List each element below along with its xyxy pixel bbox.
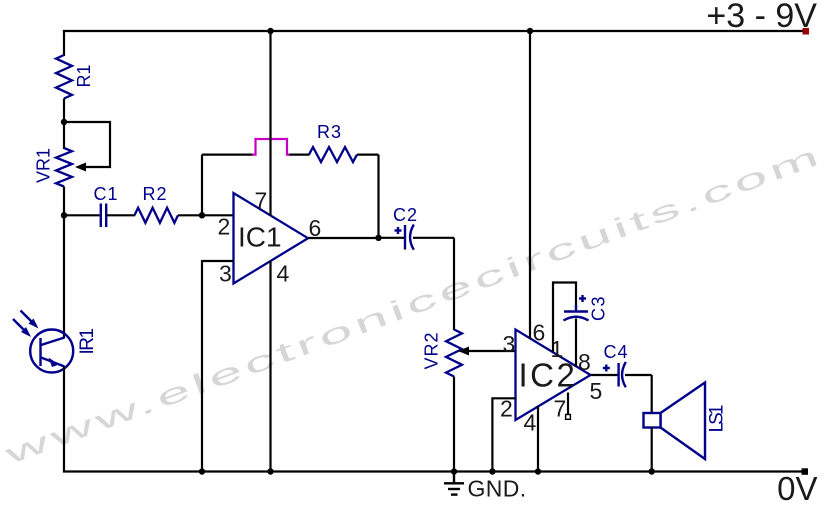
potentiometer VR2 [446, 330, 462, 377]
junction pin4 wire / bottom rail [535, 468, 541, 474]
svg-text:2: 2 [218, 214, 231, 240]
resistor R3 [309, 147, 357, 162]
capacitor C2 (polarized) [395, 225, 414, 250]
capacitor C4 (polarized) [603, 362, 626, 387]
svg-text:VR1: VR1 [34, 148, 54, 183]
junction pin3 wire / bottom rail [199, 468, 205, 474]
wire C1 to R2 [106, 214, 135, 216]
svg-text:C2: C2 [393, 205, 418, 225]
wire feedback down to output node [377, 155, 379, 238]
audio amplifier IC2 [516, 330, 591, 421]
wire feedback up [201, 155, 203, 216]
wire IC2 pin7 stub [567, 393, 569, 415]
wire IR1 emitter to bottom rail [63, 367, 65, 472]
wire C4 to corner [625, 374, 652, 376]
svg-text:8: 8 [578, 349, 591, 375]
junction pin2 wire / bottom rail [489, 468, 495, 474]
wire IC1 pin7 supply from top rail [269, 31, 271, 216]
svg-text:1: 1 [551, 336, 564, 362]
svg-text:IC1: IC1 [238, 222, 282, 253]
capacitor C3 (polarized) [564, 295, 589, 321]
svg-text:LS1: LS1 [707, 405, 728, 432]
svg-text:R2: R2 [143, 184, 168, 204]
junction output node / C2 [375, 235, 381, 241]
resistor R2 [135, 208, 179, 223]
wire IC1 output pin6 [308, 237, 379, 239]
svg-text:7: 7 [554, 396, 567, 422]
svg-text:2: 2 [500, 396, 513, 422]
wire VR1 wiper loop [64, 122, 110, 167]
svg-text:6: 6 [309, 215, 322, 241]
loudspeaker LS1 [644, 383, 706, 460]
junction VR2 / bottom rail [451, 468, 457, 474]
svg-text:5: 5 [590, 378, 603, 404]
svg-text:C3: C3 [589, 295, 609, 321]
svg-text:4: 4 [524, 410, 537, 436]
wire R1 to VR1 [63, 99, 65, 150]
wire R2 to IC1 pin2 [178, 214, 234, 216]
wire C3 to IC2 pin8 [575, 319, 577, 367]
svg-text:0V: 0V [777, 470, 817, 506]
wire bottom 0V rail [63, 470, 806, 472]
wire IC2 pin6 supply from top rail [529, 31, 531, 339]
black terminal square 0V [802, 468, 809, 475]
svg-text:GND.: GND. [468, 476, 527, 502]
wire left rail top segment [63, 30, 65, 56]
svg-text:C4: C4 [604, 342, 629, 362]
wire IC2 pin1 up [552, 281, 554, 352]
wire down to VR2 [453, 238, 455, 330]
svg-text:7: 7 [255, 188, 268, 214]
junction node R1/VR1/bypass [61, 119, 67, 125]
pin7 open terminal square [566, 415, 571, 420]
svg-text:+3 - 9V: +3 - 9V [706, 0, 817, 35]
wire VR2 to bottom rail [453, 377, 455, 472]
svg-text:3: 3 [503, 331, 516, 357]
wire down to speaker [651, 375, 653, 413]
wire VR1 to C1 node [63, 187, 65, 217]
junction node pin2/feedback [199, 212, 205, 218]
ground symbol GND [444, 472, 464, 495]
red terminal square +V [803, 28, 810, 35]
VR2 wiper arrow [458, 347, 469, 356]
resistor R1 [56, 55, 72, 99]
wire feedback horizontal [202, 154, 254, 156]
wire hop (magenta) over supply line [252, 139, 291, 155]
capacitor C1 [101, 204, 106, 228]
wire IC1 pin4 to bottom rail [269, 261, 271, 472]
wire R3 to corner [357, 154, 379, 156]
svg-text:IC2: IC2 [519, 357, 578, 394]
svg-text:VR2: VR2 [422, 331, 442, 369]
wire IC1 pin3 [202, 261, 234, 472]
svg-text:R3: R3 [317, 122, 342, 142]
junction pin4 wire / bottom rail [267, 468, 273, 474]
junction speaker / bottom rail [649, 468, 655, 474]
wire IC2 pin4 to bottom rail [537, 406, 539, 472]
junction node C1 branch [61, 212, 67, 218]
svg-text:4: 4 [277, 261, 290, 287]
wire C1 node down to IR1 collector [63, 215, 65, 338]
svg-text:3: 3 [219, 261, 232, 287]
svg-text:IR1: IR1 [77, 329, 98, 355]
VR1 wiper arrow [75, 163, 86, 172]
IR1 light arrow heads [29, 319, 39, 329]
wire C3 loop down to C3 [575, 281, 577, 308]
svg-text:6: 6 [533, 320, 546, 346]
wire C1 node to C1 [64, 214, 100, 216]
wire IC2 pin5 output [591, 374, 618, 376]
wire hop to R3 [290, 154, 310, 156]
phototransistor IR1 [13, 311, 73, 373]
svg-text:R1: R1 [74, 64, 94, 87]
wire output node to C2 [379, 237, 405, 239]
wire C2 to corner [413, 237, 454, 239]
VR2 wiper arrow wire to IC2 pin3 [466, 350, 516, 352]
svg-text:C1: C1 [94, 184, 119, 204]
IR1 emitter arrow [49, 358, 60, 368]
wire speaker to bottom rail [651, 428, 653, 472]
junction top rail / pin7 [267, 28, 273, 34]
wire IC2 pin2 [492, 398, 515, 471]
op-amp IC1 [234, 193, 309, 284]
wire top +V rail [63, 30, 806, 32]
wire C3 loop top [553, 281, 576, 283]
junction top rail / pin6 [527, 28, 533, 34]
potentiometer VR1 [56, 148, 72, 187]
